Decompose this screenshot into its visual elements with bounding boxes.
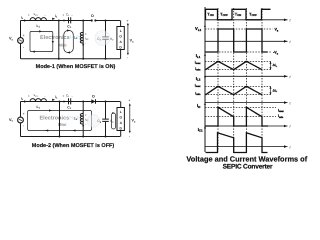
mesh current loop (Mode-2 output) [112, 112, 116, 129]
svg-text:-: - [45, 13, 46, 17]
wire bottom (Mode-1) [21, 58, 121, 60]
time axis row4 [205, 102, 288, 104]
current arrow is (Mode-2) [21, 96, 27, 102]
capacitor C1 (Mode-2) [63, 94, 73, 111]
svg-text:Mini: Mini [59, 42, 67, 47]
svg-text:VL1: VL1 [195, 26, 202, 32]
svg-text:imax: imax [195, 60, 201, 65]
svg-text:Mode-2 (When MOSFET is OFF): Mode-2 (When MOSFET is OFF) [32, 143, 115, 149]
svg-text:imin: imin [278, 114, 284, 119]
wire bottom (Mode-2) [21, 136, 121, 138]
svg-text:+: + [63, 13, 65, 17]
watermark text (Mode-2) [40, 115, 100, 128]
time axis row5 [205, 125, 288, 127]
svg-text:+: + [28, 94, 30, 98]
wire left (Mode-2) [20, 102, 22, 137]
capacitor C2 (Mode-2) [97, 101, 114, 138]
vertical axis [204, 7, 206, 152]
load resistor box (Mode-2) [117, 102, 124, 137]
svg-text:-: - [72, 94, 73, 98]
inductor L1 (Mode-2) [28, 93, 47, 109]
diode D (Mode-2) [91, 95, 95, 104]
load resistor box (Mode-1) [117, 21, 124, 59]
svg-text:imin: imin [195, 91, 201, 96]
svg-text:+: + [126, 19, 128, 23]
svg-text:imax: imax [278, 108, 284, 113]
switch S branch (Mode-2, MOSFET OFF) [59, 101, 61, 138]
svg-text:Mode-1 (When MOSFET is ON): Mode-1 (When MOSFET is ON) [36, 64, 116, 70]
delta IL marker row4 [270, 87, 272, 94]
mesh current loop 2 (Mode-1) [64, 29, 74, 53]
mesh current loop 1 (Mode-1) [30, 30, 54, 52]
capacitor C2 (Mode-1) [97, 20, 114, 60]
svg-text:-: - [45, 94, 46, 98]
VL1 waveform [195, 26, 291, 55]
svg-text:Voltage and Current Waveforms: Voltage and Current Waveforms of [186, 154, 307, 163]
iL1 waveform [195, 53, 292, 79]
iD waveform [197, 103, 291, 129]
svg-text:ElectronicsHub: ElectronicsHub [40, 35, 81, 41]
svg-text:D: D [91, 14, 94, 18]
svg-text:L: L [120, 29, 122, 33]
time axis row1 [205, 19, 288, 21]
wire left (Mode-1) [20, 21, 22, 59]
source VS (Mode-2) [9, 112, 25, 128]
current arrow is (Mode-1) [21, 15, 27, 21]
svg-text:+: + [23, 112, 25, 116]
mesh current loop (Mode-2 main) [28, 109, 92, 131]
capacitor C1 (Mode-1) [63, 13, 73, 30]
svg-text:L: L [120, 110, 122, 114]
svg-text:+: + [63, 94, 65, 98]
inductor L2 (Mode-2) [74, 101, 89, 138]
wire top (Mode-1) [21, 20, 121, 22]
diode D (Mode-1) [91, 14, 97, 22]
current arrow i1 (Mode-2) [52, 95, 58, 101]
watermark text (Mode-1) [40, 31, 110, 48]
time axis row3 [205, 75, 288, 77]
switch S branch (Mode-1, MOSFET ON = closed) [58, 20, 60, 60]
delta IL marker row3 [270, 62, 272, 69]
svg-text:SEPIC Converter: SEPIC Converter [223, 163, 273, 170]
iL2 waveform [195, 76, 292, 106]
svg-text:+: + [28, 13, 30, 17]
output voltage annotation Vo (Mode-1) [126, 19, 134, 60]
svg-text:-: - [85, 41, 86, 45]
svg-text:Mini: Mini [58, 122, 66, 127]
svg-text:ElectronicsHub: ElectronicsHub [40, 116, 81, 122]
dashed time gridlines [218, 8, 262, 152]
gate pulse waveform [205, 9, 292, 22]
svg-text:+: + [128, 98, 130, 102]
time axis row6 [205, 146, 288, 148]
svg-text:-: - [72, 13, 73, 17]
current arrow i1 (Mode-1) [52, 14, 58, 20]
svg-text:imax: imax [195, 83, 201, 88]
wire top (Mode-2) [21, 101, 121, 103]
svg-text:O: O [119, 35, 122, 39]
svg-text:IL2: IL2 [196, 76, 201, 82]
svg-text:iD: iD [197, 103, 200, 109]
svg-text:IL1: IL1 [196, 53, 201, 59]
svg-text:iC1: iC1 [198, 127, 203, 133]
svg-text:O: O [120, 116, 123, 120]
output voltage annotation Vo (Mode-2) [128, 98, 136, 138]
iC1 waveform [198, 127, 292, 153]
source VS (Mode-1) [9, 34, 25, 50]
svg-text:-: - [85, 122, 86, 126]
inductor L1 (Mode-1) [28, 12, 47, 28]
svg-text:imin: imin [195, 67, 201, 72]
time axis row2 [205, 40, 288, 42]
inductor L2 (Mode-1) [74, 20, 89, 60]
svg-text:+: + [23, 34, 25, 38]
svg-text:D: D [92, 95, 95, 99]
